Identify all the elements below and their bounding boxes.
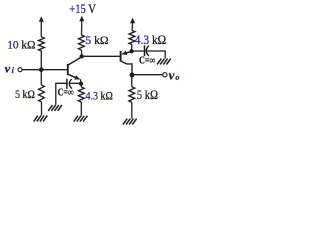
resistor R5 4.3k (Q2 emitter): [129, 31, 135, 45]
capacitor C1 straight plate: [66, 79, 68, 89]
resistor R4 4.3k (Q1 emitter): [80, 84, 82, 87]
wire node D to C2: [132, 50, 145, 52]
Q1 collector lead: [68, 57, 81, 65]
capacitor C2 straight plate: [144, 45, 146, 56]
Q1 emitter drop wire: [80, 79, 82, 83]
svg-text:4.3 kΩ: 4.3 kΩ: [135, 33, 166, 47]
wire R6 to ground: [131, 102, 133, 118]
svg-text:+15 V: +15 V: [69, 2, 96, 16]
+15V supply arrow (right rail): [130, 18, 135, 24]
wire node B to Q2 base: [82, 55, 121, 57]
transistor Q1 base bar: [67, 64, 69, 75]
svg-text:v: v: [5, 61, 11, 75]
resistor R6 5k (output load): [131, 75, 133, 87]
Q2 emitter lead: [122, 51, 131, 54]
svg-text:5 kΩ: 5 kΩ: [85, 33, 108, 47]
node A (input junction): [39, 67, 44, 72]
svg-text:C=∞: C=∞: [58, 88, 74, 99]
+15V supply arrow (left rail): [39, 16, 44, 22]
node D (Q2 emitter): [129, 49, 133, 53]
ground G3: [74, 116, 78, 122]
svg-text:v: v: [169, 67, 175, 82]
resistor R1 10k: [39, 37, 45, 51]
wire C2 to ground corner: [147, 51, 165, 59]
Q2 collector lead: [121, 61, 132, 75]
wire R2 to ground: [41, 102, 43, 116]
svg-text:C=∞: C=∞: [139, 55, 155, 66]
node C (Q1 emitter): [79, 81, 83, 85]
wire R4 to ground: [80, 102, 82, 116]
output terminal vo: [163, 73, 167, 77]
wire rail down from R1 to input node: [40, 51, 42, 85]
wire output node to vo terminal: [132, 74, 163, 76]
capacitor C2 curved plate: [146, 46, 149, 57]
node B (Q1 collector / Q2 base): [80, 54, 84, 58]
wire R3 to collector node: [81, 50, 83, 55]
wire emitter node to C1: [70, 82, 81, 84]
wire R5 to emitter node: [131, 45, 133, 50]
svg-text:10 kΩ: 10 kΩ: [7, 38, 35, 52]
svg-text:5 kΩ: 5 kΩ: [15, 87, 35, 101]
ground G1: [34, 116, 38, 122]
resistor R3 5k (collector load Q1): [79, 35, 85, 50]
transistor Q2 base bar: [120, 51, 122, 62]
wire C1 to ground corner: [56, 83, 67, 105]
Q1 emitter lead: [68, 74, 79, 79]
svg-text:o: o: [175, 73, 179, 82]
svg-text:4.3 kΩ: 4.3 kΩ: [86, 89, 113, 103]
node E (Q2 collector / output): [130, 73, 135, 78]
ground G2: [48, 105, 52, 111]
Q2 emitter arrowhead (pnp): [122, 51, 128, 55]
resistor R2 5k (left): [39, 85, 45, 102]
ground G5: [123, 119, 127, 125]
wire vi to Q1 base: [22, 69, 67, 71]
Q1 emitter arrowhead: [74, 75, 80, 79]
capacitor C1 curved plate: [69, 79, 72, 89]
input terminal vi: [18, 68, 22, 72]
+15V supply arrow (middle rail): [79, 16, 84, 21]
svg-text:5 kΩ: 5 kΩ: [137, 88, 158, 102]
ground G4: [157, 59, 161, 65]
